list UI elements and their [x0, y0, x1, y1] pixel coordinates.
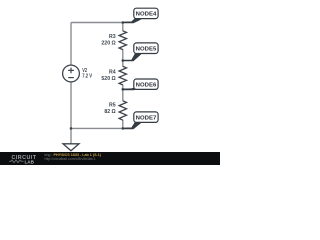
node NODE7 label — [134, 112, 158, 123]
node NODE4 flag tail — [123, 18, 141, 24]
resistor R3 — [119, 31, 126, 50]
svg-text:R5: R5 — [109, 103, 116, 109]
CircuitLab logo — [9, 155, 37, 164]
node NODE4 label — [134, 8, 158, 18]
watermark bar — [0, 152, 220, 165]
svg-text:520 Ω: 520 Ω — [101, 76, 115, 82]
wire right branch segment R3 to NODE5 — [122, 49, 124, 60]
junction dot bottom left — [70, 127, 73, 130]
resistor R5 — [119, 101, 126, 120]
svg-text:7.2 V: 7.2 V — [82, 74, 92, 80]
node NODE6 label — [134, 79, 158, 89]
wire right branch segment NODE4 to R3 — [122, 23, 124, 32]
node D junction dot (NODE7) — [122, 127, 125, 130]
node NODE5 label — [134, 43, 158, 54]
wire top: V2 plus terminal to node NODE4 — [71, 22, 123, 24]
label R4 value — [101, 70, 115, 83]
svg-text:NODE6: NODE6 — [136, 82, 157, 88]
voltage source V2 — [63, 65, 80, 82]
resistor R4 — [119, 66, 126, 85]
wire ground stem — [70, 128, 72, 143]
wire bottom: junction to NODE7 corner — [71, 127, 123, 129]
svg-text:NODE7: NODE7 — [136, 115, 157, 121]
node NODE5 flag tail — [123, 53, 141, 62]
svg-text:NODE5: NODE5 — [136, 46, 157, 52]
label V2 value — [82, 68, 92, 79]
wire left lower: V2 bottom down to bottom junction — [70, 82, 72, 128]
svg-text:LAB: LAB — [25, 159, 35, 164]
wire right branch segment R5 to NODE7 corner — [122, 120, 124, 129]
svg-text:220 Ω: 220 Ω — [101, 40, 115, 46]
node NODE7 flag tail — [123, 121, 141, 129]
label R3 value — [101, 34, 115, 47]
ground — [63, 144, 79, 151]
label R5 value — [104, 103, 115, 116]
wire right branch segment NODE5 to R4 — [122, 61, 124, 67]
svg-text:R4: R4 — [109, 70, 116, 76]
svg-text:http://circuitlab.com/c/8rv5k/: http://circuitlab.com/c/8rv5k/lab-1 — [45, 157, 96, 161]
node A junction dot (NODE4) — [122, 21, 125, 24]
node C junction dot (NODE6) — [122, 88, 125, 91]
svg-text:82 Ω: 82 Ω — [104, 109, 115, 115]
svg-text:NODE4: NODE4 — [136, 12, 157, 18]
wire right branch segment R4 to NODE6 — [122, 85, 124, 90]
node B junction dot (NODE5) — [122, 59, 125, 62]
node NODE6 flag tail — [123, 87, 141, 90]
wire left upper: top corner down to V2 top — [70, 23, 72, 66]
wire right branch segment NODE6 to R5 — [122, 89, 124, 101]
svg-text:R3: R3 — [109, 34, 116, 40]
